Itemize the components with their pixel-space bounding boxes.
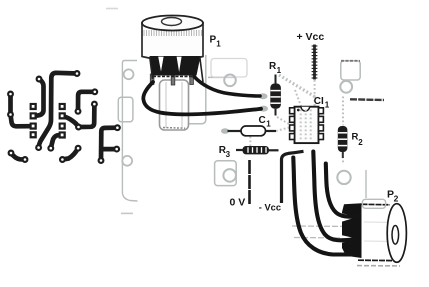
wire A from P1 to R1 pad <box>194 77 260 97</box>
trace T10 <box>11 153 25 160</box>
trace T6 <box>62 116 79 127</box>
-Vcc wire <box>282 151 304 203</box>
copper trace ghost inside CI1 <box>301 110 311 142</box>
pin 5 <box>319 134 324 140</box>
trace T5 <box>79 104 95 127</box>
svg-text:1: 1 <box>325 101 330 110</box>
trace T1 <box>11 94 30 126</box>
grey hole ring near node A <box>224 75 236 87</box>
pad H <box>75 124 82 131</box>
pin 2 <box>290 116 295 122</box>
trace T8 <box>51 135 62 148</box>
trace T2 <box>34 79 44 116</box>
pin 1 <box>290 108 295 114</box>
trace T4 <box>78 92 95 112</box>
grey hole ring near 0V <box>223 169 236 182</box>
svg-text:C: C <box>259 115 266 126</box>
pad K <box>8 150 15 157</box>
P2 body cylinder <box>362 204 398 260</box>
P1 shaft hole <box>162 18 182 26</box>
round pads of copper layout <box>7 70 121 164</box>
wire 3 IC to P2 top <box>326 164 357 217</box>
pad C <box>36 76 43 83</box>
0V lead <box>248 160 251 204</box>
grey hole ring left bottom <box>122 156 132 166</box>
pad P <box>114 124 121 131</box>
P2 end cap <box>387 204 406 263</box>
svg-text:2: 2 <box>394 194 399 204</box>
pad M <box>35 144 42 151</box>
grey board outline near P1 <box>160 55 236 124</box>
pad E <box>91 88 98 95</box>
P2 skirt white gap 1 <box>342 213 358 221</box>
grey hole ring left top <box>124 69 134 79</box>
P1 skirt bottom rim <box>153 76 196 78</box>
grey stray dash top <box>106 8 118 10</box>
grey pad rect top of P1 right <box>211 59 247 78</box>
svg-text:CI: CI <box>314 96 324 107</box>
grey pad rect near 0V <box>215 161 237 186</box>
svg-text:+ Vcc: + Vcc <box>297 31 325 43</box>
pin 8 <box>319 108 324 114</box>
label R1 <box>269 61 282 75</box>
P2 wafer skirt <box>342 203 362 258</box>
resistor R2 <box>338 126 348 158</box>
pad I <box>75 145 82 152</box>
grey board lines behind wires <box>292 225 352 228</box>
P1 skirt white gap 2 <box>177 57 182 72</box>
grey pad rect right of +Vcc <box>341 61 360 80</box>
pad G <box>91 101 98 108</box>
wire 1 IC to P2 bottom <box>293 158 351 255</box>
P1 knurl band <box>144 30 202 36</box>
pad D <box>74 70 81 77</box>
P1 knob top face <box>142 16 203 31</box>
svg-text:3: 3 <box>226 150 231 159</box>
trace T7 arm <box>101 147 116 152</box>
pad L <box>22 156 29 163</box>
P1 body shaft <box>160 80 189 130</box>
P1 terminal legs <box>150 74 154 85</box>
op-amp IC CI1 <box>290 107 324 143</box>
trace T7 F-shape <box>101 128 117 161</box>
grey board edge left column <box>122 61 137 202</box>
IC footprint square pads right column <box>59 103 66 139</box>
pin 3 <box>290 125 295 131</box>
grey solder pad blob at wire A end <box>259 93 268 99</box>
P1 knob cylinder <box>142 23 203 60</box>
P2 skirt white gap 2 <box>342 235 358 243</box>
label CI1 <box>314 96 330 110</box>
grey pad rect left of P2 <box>362 199 385 208</box>
pad B <box>7 111 14 118</box>
pad J <box>59 156 66 163</box>
capacitor C1 <box>228 126 277 136</box>
pin 6 <box>319 125 324 131</box>
wire 2 IC to P2 middle <box>313 152 356 241</box>
grey base line under P2 <box>357 265 400 267</box>
pad N <box>47 145 54 152</box>
pad A <box>7 91 14 98</box>
label R3 <box>219 145 231 159</box>
IC footprint square pads left column <box>30 103 37 138</box>
grey dash on pad rect <box>341 60 360 62</box>
wire to board top right <box>350 98 384 101</box>
label P2 <box>387 189 399 204</box>
pin 4 <box>290 134 295 140</box>
svg-text:1: 1 <box>216 40 221 49</box>
label P1 <box>210 35 222 49</box>
pad F <box>75 108 82 115</box>
grey board edge above P2 <box>365 170 367 198</box>
grey hole ring below it <box>340 81 352 93</box>
grey pad rect left <box>118 97 133 122</box>
resistor R3 <box>236 146 279 154</box>
grey dotted copper traces under IC <box>250 75 343 165</box>
resistor R1 <box>270 75 281 116</box>
svg-text:0 V: 0 V <box>230 196 246 208</box>
svg-text:1: 1 <box>277 66 282 75</box>
label R2 <box>352 131 364 147</box>
+Vcc supply lead <box>312 45 318 80</box>
grey solder pad blob at wire B end <box>259 106 268 112</box>
P1 skirt white gap 1 <box>158 57 163 72</box>
P2 shaft hole <box>392 226 399 245</box>
label C1 <box>259 115 272 128</box>
pin 7 <box>319 116 324 122</box>
grey solder pad blob at C1 left lead <box>221 128 229 134</box>
svg-text:- Vcc: - Vcc <box>259 203 281 213</box>
svg-text:1: 1 <box>266 119 271 128</box>
wire B from P1 around body <box>143 82 261 114</box>
grey hole ring above P2 <box>337 171 350 184</box>
pad O <box>98 157 105 164</box>
svg-text:2: 2 <box>358 138 363 147</box>
trace T3 <box>39 73 77 148</box>
P1 wafer skirt <box>150 56 201 76</box>
P1 skirt right edge <box>200 57 203 82</box>
grey stray dash left <box>121 212 133 214</box>
pad Q <box>113 146 120 153</box>
P1 skirt left edge <box>150 57 153 79</box>
trace T9 <box>62 148 78 159</box>
